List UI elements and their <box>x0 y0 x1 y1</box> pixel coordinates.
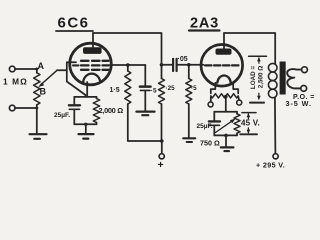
output terminal bottom <box>301 86 307 92</box>
wire <box>188 104 190 137</box>
wire plate top rail <box>93 33 162 79</box>
svg-text:+: + <box>158 159 164 171</box>
svg-text:6C6: 6C6 <box>58 14 90 31</box>
ground <box>221 146 234 148</box>
svg-text:A: A <box>38 61 45 71</box>
filament terminal left <box>210 97 212 102</box>
svg-text:LOAD =: LOAD = <box>250 66 257 90</box>
wire <box>161 104 163 141</box>
capacitor C1 25µF <box>73 97 75 104</box>
junction <box>84 123 87 126</box>
wire <box>36 105 38 133</box>
output terminal top <box>302 67 308 73</box>
transformer T1 core <box>280 62 286 95</box>
potentiometer R1 1 MΩ <box>34 73 40 105</box>
grid rows of 6C6 <box>81 61 109 70</box>
wire cathode stem <box>86 82 88 97</box>
dimension 45 V <box>242 112 256 114</box>
wire primary to B+ <box>274 98 277 154</box>
svg-text:25µF.: 25µF. <box>54 112 70 119</box>
wire <box>15 68 37 70</box>
tube U2 2A3 envelope <box>201 45 243 87</box>
plate of 2A3 <box>216 49 232 55</box>
wire plate lead <box>223 33 225 49</box>
capacitor C3 0.05µF coupling <box>162 64 173 66</box>
svg-text:+ 295 V.: + 295 V. <box>256 160 285 169</box>
wire screen lead <box>110 64 146 66</box>
ground <box>183 137 195 139</box>
wire <box>161 141 163 154</box>
transformer T1 primary winding <box>268 63 277 72</box>
svg-text:·5: ·5 <box>191 85 197 92</box>
svg-text:·05: ·05 <box>178 56 188 63</box>
wire <box>85 124 87 133</box>
wire center tap <box>225 97 227 112</box>
resistor R3 1.5 MΩ <box>127 65 129 71</box>
input terminal top <box>9 66 15 72</box>
hum-balance resistor R6 <box>211 94 238 98</box>
junction plate node <box>160 63 164 67</box>
svg-text:1 MΩ: 1 MΩ <box>3 77 28 87</box>
wire grid lead to wiper <box>57 62 76 70</box>
wire <box>225 135 227 146</box>
resistor R4 0.25 MΩ plate load <box>159 79 165 105</box>
svg-text:25µF.: 25µF. <box>197 123 213 130</box>
wire filament shoulders <box>211 83 218 94</box>
junction <box>224 134 228 138</box>
input terminal bottom <box>9 105 15 111</box>
junction <box>160 139 164 143</box>
junction <box>35 68 38 71</box>
terminal +295V <box>273 154 278 159</box>
resistor R2 2,000Ω <box>96 97 98 99</box>
svg-text:750 Ω: 750 Ω <box>200 139 220 148</box>
wire cathode loop bottom <box>74 123 96 125</box>
dimension LOAD = 2,500Ω <box>249 55 267 57</box>
ground <box>137 110 155 112</box>
wire plate rail to transformer <box>224 33 275 64</box>
wire suppressor to cathode <box>67 70 86 97</box>
capacitor C4 25µF <box>213 112 215 121</box>
cathode of 6C6 <box>83 74 100 82</box>
resistor R7 750Ω <box>236 112 238 114</box>
filament of 2A3 <box>217 75 230 82</box>
ground <box>30 133 47 135</box>
svg-text:B: B <box>40 87 47 97</box>
ground <box>79 133 94 135</box>
plate of 6C6 <box>83 47 102 54</box>
wire 2A3 cathode loop bottom <box>214 134 237 136</box>
wire plate lead <box>92 33 94 48</box>
svg-text:2A3: 2A3 <box>190 16 219 32</box>
pointer arrow to R7 <box>216 120 234 132</box>
capacitor C2 0.5µF screen bypass <box>144 65 146 85</box>
svg-text:2,500 Ω: 2,500 Ω <box>257 66 264 89</box>
wire 2A3 cathode loop top <box>214 111 237 113</box>
svg-text:·5: ·5 <box>151 87 157 94</box>
wiper arm B <box>41 70 58 85</box>
transformer T1 secondary winding <box>287 69 302 88</box>
grid row of 2A3 <box>205 64 239 66</box>
svg-text:3-5 W.: 3-5 W. <box>286 99 312 108</box>
junction center tap <box>224 95 228 99</box>
svg-text:·25: ·25 <box>166 85 176 92</box>
junction <box>126 63 130 67</box>
svg-text:2,000 Ω: 2,000 Ω <box>99 106 124 115</box>
filament terminal right <box>238 97 240 100</box>
tube U1 6C6 envelope <box>70 43 112 85</box>
terminal B+ first stage <box>159 154 164 159</box>
resistor R5 0.5 MΩ grid leak <box>188 65 190 79</box>
wire cathode loop top <box>74 96 96 98</box>
junction <box>187 63 191 67</box>
svg-text:1·5: 1·5 <box>110 87 120 94</box>
wire <box>15 107 37 109</box>
svg-text:45 V.: 45 V. <box>241 119 260 128</box>
wire <box>128 104 162 141</box>
